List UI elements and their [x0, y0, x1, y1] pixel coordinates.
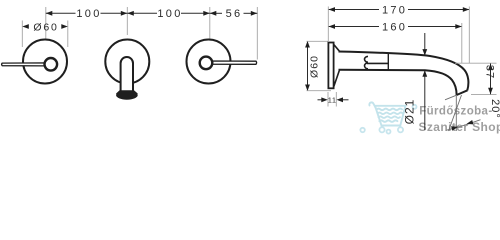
centerline spout	[126, 7, 128, 35]
centerline right handle	[209, 7, 211, 40]
wall plate side profile	[328, 43, 333, 89]
extension line 160 tip	[461, 23, 463, 63]
svg-text:20°: 20°	[489, 99, 500, 119]
aerator symbol	[365, 54, 389, 70]
extension line outlet bottom right	[471, 93, 497, 95]
extension line 170 tip	[468, 7, 470, 64]
svg-text:Ø60: Ø60	[33, 21, 58, 33]
svg-text:100: 100	[157, 8, 182, 20]
spout top edge	[339, 52, 469, 91]
svg-text:Ø21: Ø21	[403, 99, 417, 125]
spout front outlet	[116, 90, 138, 98]
extension line wall	[327, 7, 329, 42]
extension line lever tip (56)	[256, 7, 258, 60]
dimension Ø60 front	[22, 21, 68, 48]
svg-text:100: 100	[76, 8, 101, 20]
right handle hub	[200, 57, 213, 70]
extension line spout top right	[455, 62, 497, 64]
svg-text:170: 170	[382, 4, 407, 16]
spout front tube	[121, 57, 133, 91]
dimension Ø21	[403, 33, 428, 130]
angle reference diagonal line	[449, 95, 462, 131]
dimension 160	[329, 21, 462, 33]
dimension 37	[483, 64, 495, 95]
dimension 11 plate depth	[318, 92, 349, 107]
dimension 100 right	[127, 8, 210, 20]
svg-text:56: 56	[226, 8, 243, 20]
angle dimension arc	[447, 120, 481, 131]
left lever handle	[2, 63, 46, 66]
svg-text:37: 37	[483, 65, 495, 79]
left escutcheon circle	[23, 40, 67, 84]
plate taper top	[334, 45, 340, 52]
right escutcheon circle	[187, 40, 231, 84]
plate taper bottom	[334, 70, 340, 87]
dimension 170	[329, 4, 470, 16]
angle reference vertical line	[455, 96, 457, 132]
dimension 56	[210, 8, 257, 20]
outlet face extension line	[445, 95, 457, 100]
right lever handle	[211, 61, 257, 64]
angle arc arrow left	[451, 126, 458, 130]
svg-text:11: 11	[328, 96, 337, 105]
centerline left handle	[45, 7, 47, 39]
spout outlet face	[457, 90, 468, 95]
svg-text:Ø60: Ø60	[309, 55, 321, 78]
watermark cart wheels	[360, 105, 416, 134]
dimension 100 left	[46, 8, 128, 20]
watermark cart icon	[369, 102, 405, 125]
dimension Ø60 side	[305, 41, 331, 91]
spout bottom edge	[339, 70, 457, 95]
svg-text:160: 160	[382, 21, 407, 33]
angle arc arrow right	[467, 120, 474, 124]
middle escutcheon circle	[105, 40, 149, 84]
left handle hub	[45, 58, 58, 71]
